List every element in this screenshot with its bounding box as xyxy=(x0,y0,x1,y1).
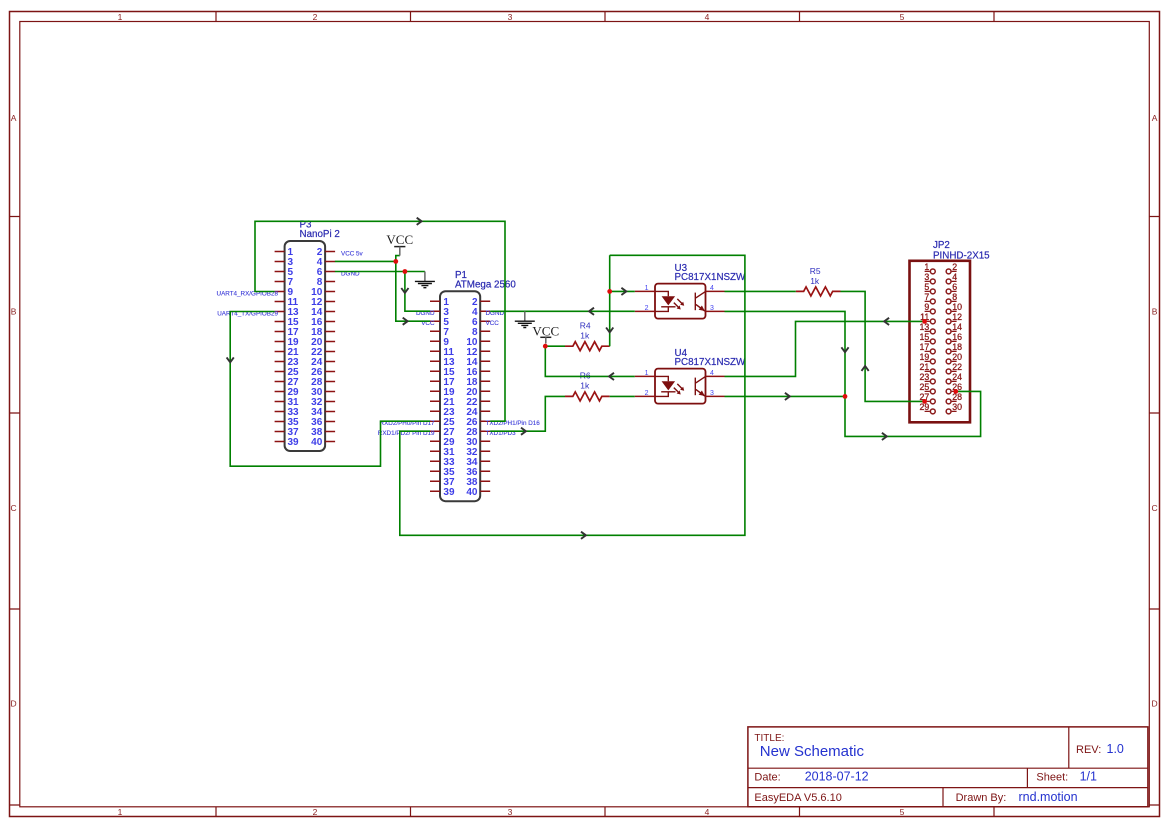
svg-text:3: 3 xyxy=(924,272,929,282)
svg-text:24: 24 xyxy=(952,372,962,382)
svg-text:4: 4 xyxy=(705,12,710,22)
svg-text:2: 2 xyxy=(313,12,318,22)
svg-text:1/1: 1/1 xyxy=(1080,770,1097,784)
svg-text:B: B xyxy=(11,307,17,317)
svg-text:1: 1 xyxy=(645,285,649,292)
svg-text:VCC: VCC xyxy=(386,232,413,247)
wire net P3.13 to P1.25 xyxy=(227,312,430,467)
svg-text:1: 1 xyxy=(118,807,123,817)
svg-text:30: 30 xyxy=(952,402,962,412)
wire net P3.9 to P1.26 xyxy=(255,218,505,422)
svg-text:20: 20 xyxy=(952,352,962,362)
svg-text:40: 40 xyxy=(311,437,323,448)
svg-text:REV:: REV: xyxy=(1076,744,1101,756)
ground symbol mid xyxy=(524,311,526,321)
ground symbol near P3 xyxy=(424,272,426,282)
svg-text:2: 2 xyxy=(952,262,957,272)
svg-text:1: 1 xyxy=(118,12,123,22)
power symbol VCC (near R4) xyxy=(532,324,559,344)
wire net U3.3 / U4.3 / JP2.26 xyxy=(725,311,981,440)
svg-text:EasyEDA V5.6.10: EasyEDA V5.6.10 xyxy=(754,792,841,804)
wire net VCC2 / R4 / U3.1 / P1.27 loop xyxy=(400,255,745,539)
connector JP2 PINHD-2X15 xyxy=(910,240,991,422)
svg-text:5: 5 xyxy=(900,807,905,817)
resistor R4 1k xyxy=(565,320,610,350)
svg-text:C: C xyxy=(1152,503,1158,513)
resistor R6 1k xyxy=(565,370,610,401)
svg-text:VCC 5v: VCC 5v xyxy=(341,250,364,257)
resistor R5 1k xyxy=(796,266,841,296)
optocoupler U4 PC817X1NSZW xyxy=(635,348,746,404)
svg-text:1: 1 xyxy=(924,262,929,272)
svg-text:VCC: VCC xyxy=(532,324,559,339)
svg-text:8: 8 xyxy=(952,292,957,302)
svg-text:2: 2 xyxy=(645,390,649,397)
svg-text:VCC: VCC xyxy=(486,320,500,327)
svg-text:19: 19 xyxy=(920,352,930,362)
svg-text:D: D xyxy=(11,699,17,709)
svg-text:PC817X1NSZW: PC817X1NSZW xyxy=(675,357,747,368)
svg-text:40: 40 xyxy=(466,487,478,498)
wire net DGND2 (P1.4 to U3.2) xyxy=(490,308,635,315)
svg-text:39: 39 xyxy=(443,487,455,498)
title block xyxy=(748,727,1148,807)
svg-text:A: A xyxy=(11,113,17,123)
svg-text:3: 3 xyxy=(710,305,714,312)
svg-text:PC817X1NSZW: PC817X1NSZW xyxy=(675,272,747,283)
svg-text:5: 5 xyxy=(924,282,929,292)
svg-text:10: 10 xyxy=(952,302,962,312)
wire net U3.4 / R5 / JP2.27 xyxy=(725,291,927,403)
svg-text:4: 4 xyxy=(710,370,714,377)
svg-text:D: D xyxy=(1152,699,1158,709)
svg-text:R6: R6 xyxy=(580,370,591,380)
svg-text:New Schematic: New Schematic xyxy=(760,743,865,760)
wire net U4.4 / JP2.11 xyxy=(725,318,927,377)
svg-text:1: 1 xyxy=(645,370,649,377)
svg-text:A: A xyxy=(1152,113,1158,123)
svg-text:12: 12 xyxy=(952,312,962,322)
svg-text:4: 4 xyxy=(710,285,714,292)
svg-text:rnd.motion: rnd.motion xyxy=(1019,790,1078,804)
svg-text:3: 3 xyxy=(710,390,714,397)
svg-text:14: 14 xyxy=(952,322,962,332)
svg-text:2: 2 xyxy=(645,305,649,312)
wire net VCC near P3 (P3.4 / P1.5) xyxy=(335,256,430,325)
svg-text:6: 6 xyxy=(952,282,957,292)
optocoupler U3 PC817X1NSZW xyxy=(635,263,746,319)
svg-text:39: 39 xyxy=(288,437,300,448)
svg-text:3: 3 xyxy=(508,12,513,22)
svg-text:17: 17 xyxy=(920,342,930,352)
svg-text:C: C xyxy=(11,503,17,513)
svg-text:3: 3 xyxy=(508,807,513,817)
svg-text:1k: 1k xyxy=(580,381,590,391)
power symbol VCC (near P3) xyxy=(386,232,413,256)
svg-text:7: 7 xyxy=(924,292,929,302)
svg-text:2: 2 xyxy=(313,807,318,817)
svg-text:NanoPi 2: NanoPi 2 xyxy=(300,229,340,240)
svg-text:16: 16 xyxy=(952,332,962,342)
svg-text:4: 4 xyxy=(952,272,957,282)
svg-text:22: 22 xyxy=(952,362,962,372)
svg-text:Date:: Date: xyxy=(754,772,780,784)
connector P1 ATMega 2560 xyxy=(378,270,540,501)
svg-text:R5: R5 xyxy=(810,266,821,276)
svg-text:4: 4 xyxy=(705,807,710,817)
svg-text:Sheet:: Sheet: xyxy=(1036,772,1068,784)
wire net P1.28 to R6/U4.2 xyxy=(490,396,635,434)
svg-text:9: 9 xyxy=(924,302,929,312)
wire net DGND (P3.6 / P1.3 / ground) xyxy=(335,269,430,311)
svg-text:Drawn By:: Drawn By: xyxy=(956,792,1007,804)
svg-text:1.0: 1.0 xyxy=(1107,742,1124,756)
svg-text:1k: 1k xyxy=(580,331,590,341)
svg-text:ATMega 2560: ATMega 2560 xyxy=(455,280,516,291)
connector P3 NanoPi 2 xyxy=(217,220,364,451)
svg-text:15: 15 xyxy=(920,332,930,342)
svg-text:25: 25 xyxy=(920,382,930,392)
svg-text:B: B xyxy=(1152,307,1158,317)
svg-text:1k: 1k xyxy=(810,276,820,286)
svg-text:2018-07-12: 2018-07-12 xyxy=(805,770,869,784)
svg-text:R4: R4 xyxy=(580,320,591,330)
svg-text:23: 23 xyxy=(920,372,930,382)
svg-text:5: 5 xyxy=(900,12,905,22)
svg-text:21: 21 xyxy=(920,362,930,372)
svg-text:18: 18 xyxy=(952,342,962,352)
